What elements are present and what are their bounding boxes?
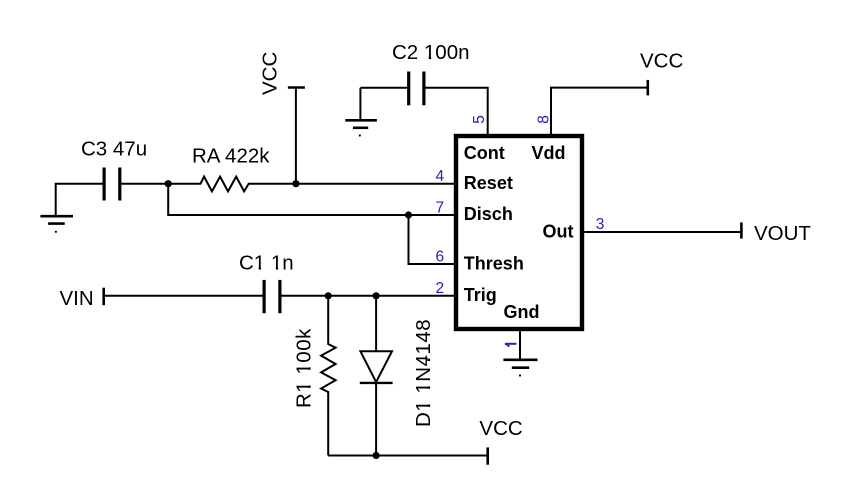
svg-text:6: 6 [436,248,445,265]
svg-text:Vdd: Vdd [532,143,566,163]
svg-text:5: 5 [471,115,488,124]
svg-text:Out: Out [543,221,574,241]
svg-text:4: 4 [436,168,445,185]
svg-text:VOUT: VOUT [754,222,811,245]
svg-text:VIN: VIN [60,287,94,310]
svg-text:VCC: VCC [640,49,683,72]
svg-text:C1 1n: C1 1n [239,251,294,274]
svg-text:RA 422k: RA 422k [192,145,270,168]
svg-text:8: 8 [535,115,552,124]
svg-text:C2 100n: C2 100n [392,41,470,64]
svg-text:Disch: Disch [464,204,513,224]
svg-text:2: 2 [436,280,445,297]
svg-text:D1 1N4148: D1 1N4148 [412,319,435,427]
svg-text:R1 100k: R1 100k [293,328,316,408]
svg-text:VCC: VCC [259,52,282,95]
svg-text:C3 47u: C3 47u [81,138,147,161]
svg-text:Trig: Trig [464,285,497,305]
svg-text:3: 3 [596,216,605,233]
svg-text:Gnd: Gnd [504,302,540,322]
svg-text:Thresh: Thresh [464,254,524,274]
svg-text:Reset: Reset [464,173,513,193]
svg-text:7: 7 [436,199,445,216]
svg-text:VCC: VCC [479,417,522,440]
svg-text:Cont: Cont [464,143,505,163]
